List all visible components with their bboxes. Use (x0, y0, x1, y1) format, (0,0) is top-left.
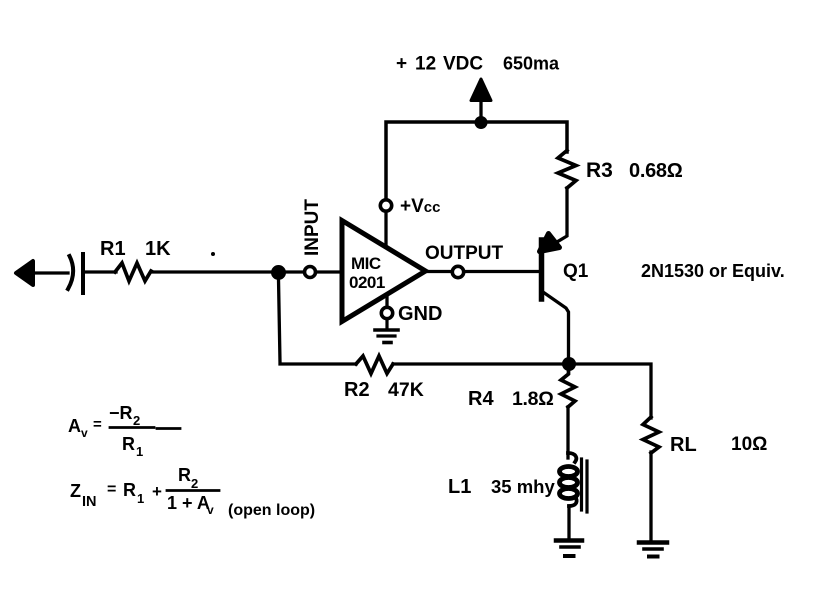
junction power node (475, 116, 488, 129)
input arrow (16, 261, 33, 285)
svg-text:v: v (207, 503, 214, 517)
wire input arrow to capacitor (31, 271, 68, 274)
wire node B to RL (576, 364, 651, 418)
resistor R2 (356, 356, 393, 374)
svg-text:−R: −R (109, 403, 133, 423)
resistor R1 (115, 263, 151, 281)
+12V power arrow (479, 96, 482, 118)
svg-text:Z: Z (70, 481, 81, 501)
svg-text:A: A (68, 416, 81, 436)
resistor RL (643, 417, 659, 453)
transistor Q1 (540, 234, 569, 359)
svg-text:1: 1 (136, 444, 143, 459)
svg-text:R: R (178, 465, 191, 485)
svg-text:IN: IN (82, 494, 97, 510)
svg-text:1 + A: 1 + A (167, 493, 210, 513)
svg-text:2: 2 (133, 413, 140, 428)
GND pin circle (381, 307, 392, 318)
svg-text:L1: L1 (448, 476, 471, 498)
svg-text:1K: 1K (145, 238, 171, 260)
wire R1 to node A (151, 270, 273, 273)
svg-text:+Vcc: +Vcc (400, 196, 440, 217)
resistor R3 (558, 151, 576, 189)
svg-text:INPUT: INPUT (302, 199, 323, 256)
op-amp U1 MIC 0201 (342, 221, 426, 322)
wire capacitor to R1 (85, 270, 116, 273)
svg-text:R: R (123, 480, 136, 500)
formula Zin = R1 + R2/(1+Av) (open loop) (70, 465, 315, 519)
svg-text:=: = (93, 416, 102, 433)
svg-text:(open loop): (open loop) (228, 502, 315, 519)
formula Av = -R2/R1 (68, 403, 143, 459)
+Vcc pin circle (380, 200, 391, 211)
wire op-amp top to +Vcc pin (384, 212, 387, 247)
svg-text:+: + (152, 482, 162, 501)
svg-text:1.8Ω: 1.8Ω (512, 388, 554, 410)
wire RL to ground (649, 452, 652, 540)
wire OUTPUT terminal to Q1 base (465, 270, 539, 273)
svg-text:650ma: 650ma (503, 54, 560, 74)
svg-text:R4: R4 (468, 388, 494, 410)
wire node A down to R2 (279, 279, 357, 364)
ink speck (211, 252, 215, 256)
svg-text:=: = (107, 481, 116, 498)
svg-text:v: v (81, 426, 88, 440)
wire R4 to L1 (566, 407, 569, 458)
svg-text:+12VDC: +12VDC (396, 54, 483, 75)
svg-text:47K: 47K (388, 379, 424, 401)
GND pin stem (385, 295, 388, 307)
svg-text:MIC: MIC (351, 254, 381, 273)
OUTPUT terminal circle (452, 266, 463, 277)
inductor L1 (560, 453, 588, 512)
svg-text:0.68Ω: 0.68Ω (629, 160, 683, 182)
svg-text:R1: R1 (100, 238, 126, 260)
wire +Vcc pin to top rail (386, 122, 567, 199)
wire R3 to Q1 emitter (557, 188, 567, 242)
wire INPUT terminal to op-amp (316, 270, 341, 273)
svg-text:Q1: Q1 (563, 261, 589, 282)
svg-text:1: 1 (137, 491, 144, 506)
junction node A (271, 265, 286, 280)
capacitor (input coupling) (68, 254, 83, 293)
svg-text:R: R (122, 434, 135, 454)
svg-text:GND: GND (398, 303, 442, 325)
wire L1 to ground (567, 506, 570, 538)
resistor R4 (561, 371, 575, 407)
svg-text:0201: 0201 (349, 273, 385, 292)
svg-text:2N1530 or Equiv.: 2N1530 or Equiv. (641, 261, 785, 281)
svg-text:RL: RL (670, 434, 697, 456)
svg-text:35 mhy: 35 mhy (491, 476, 555, 497)
svg-text:R2: R2 (344, 379, 370, 401)
svg-text:10Ω: 10Ω (731, 434, 767, 455)
svg-text:R3: R3 (586, 159, 613, 182)
INPUT terminal circle (305, 267, 316, 278)
svg-text:2: 2 (191, 476, 198, 491)
ground (RL) (639, 543, 667, 557)
wire node A to INPUT terminal (286, 270, 304, 273)
junction node B (562, 357, 576, 371)
ground (op-amp GND) (375, 319, 398, 343)
svg-text:OUTPUT: OUTPUT (425, 243, 504, 264)
wire R2 to node B (393, 362, 563, 365)
ground (L1) (556, 541, 582, 557)
wire op-amp output to OUTPUT terminal (426, 270, 452, 273)
